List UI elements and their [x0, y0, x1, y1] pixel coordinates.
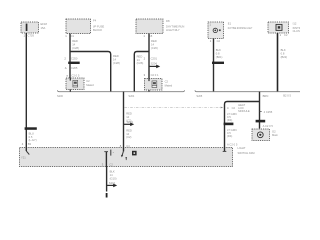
svg-text:RED: RED [126, 112, 132, 116]
svg-text:BLK: BLK [110, 170, 115, 174]
wire from fuse box down to headlamp switch [25, 33, 27, 148]
svg-text:C1: C1 [71, 34, 75, 38]
svg-text:C2: C2 [165, 80, 169, 84]
svg-text:Main: Main [272, 133, 278, 137]
svg-text:Mated: Mated [86, 83, 94, 87]
svg-text:14: 14 [110, 173, 113, 177]
svg-text:C2: C2 [109, 162, 113, 166]
svg-text:BLK: BLK [281, 48, 286, 52]
in-line connector tick [212, 62, 224, 64]
svg-text:0.8: 0.8 [216, 51, 220, 55]
interior: right terminal stub [224, 148, 226, 152]
interior: indicator [132, 151, 137, 156]
svg-text:RED: RED [126, 128, 132, 132]
fuse block box F1 (top-left, dashed) [21, 22, 39, 33]
underhood fuse block box (dashed) [66, 19, 91, 34]
svg-text:C2: C2 [86, 79, 90, 83]
svg-text:(D4): (D4) [227, 118, 232, 122]
wire from cluster down to splice bus [277, 33, 279, 92]
svg-text:B2 0 5: B2 0 5 [283, 93, 291, 97]
svg-text:A: A [65, 66, 67, 70]
heater LCD module wire path [259, 92, 261, 129]
svg-text:I12: I12 [293, 21, 297, 25]
svg-text:DAYTIME RUN: DAYTIME RUN [166, 24, 184, 28]
svg-text:14: 14 [126, 132, 129, 136]
svg-text:14: 14 [151, 42, 154, 46]
wire from third box down [148, 34, 150, 79]
svg-text:RED: RED [137, 54, 143, 58]
wire from fuse block down [69, 34, 71, 79]
svg-text:BLOCK: BLOCK [93, 28, 102, 32]
svg-text:(L-GY): (L-GY) [29, 138, 37, 142]
svg-text:Y21: Y21 [21, 156, 26, 160]
in-line connector tick on wire [68, 62, 80, 64]
svg-text:C703: C703 [28, 34, 35, 38]
svg-text:C2: C2 [284, 33, 288, 37]
svg-text:Mated: Mated [165, 83, 173, 87]
svg-text:RED: RED [113, 54, 119, 58]
svg-text:S210: S210 [109, 181, 116, 185]
svg-text:14: 14 [72, 43, 75, 47]
branch wire left [134, 52, 149, 92]
svg-text:(G10): (G10) [110, 176, 117, 180]
svg-text:B3: B3 [28, 142, 32, 146]
svg-text:MODULE: MODULE [238, 109, 250, 113]
svg-text:LIGHT: LIGHT [238, 146, 246, 150]
indicator symbol inside [276, 24, 282, 30]
ignition fuse box (dashed, third at top) [136, 19, 163, 34]
svg-text:RED: RED [72, 39, 78, 43]
svg-text:I/P FUSE: I/P FUSE [93, 24, 104, 28]
svg-text:BLU: BLU [29, 131, 34, 135]
svg-text:DAYTIME RUNNING LIGHT: DAYTIME RUNNING LIGHT [228, 26, 253, 30]
ground G201 box (dashed) [252, 129, 270, 141]
in-line connector tick [224, 123, 234, 126]
svg-text:4 C255: 4 C255 [264, 110, 273, 114]
branch to headlamp switch [225, 102, 260, 148]
svg-text:15A: 15A [41, 26, 46, 30]
splice pack box SP205 (dashed) [66, 78, 84, 90]
off-page arrow [124, 123, 131, 125]
svg-text:(B22): (B22) [281, 55, 288, 59]
branch wire right to splice [70, 52, 111, 92]
svg-text:C2: C2 [217, 39, 221, 43]
in-line connector tick on ground wire [256, 120, 266, 123]
svg-text:C2 0 5: C2 0 5 [71, 73, 79, 77]
svg-text:14: 14 [113, 57, 116, 61]
splice pack symbol [152, 81, 157, 88]
DRL relay box (top, 4th, dashed) [208, 22, 224, 39]
in-line connector C100 on left wire [25, 127, 37, 130]
output wire below switch [106, 167, 108, 192]
svg-text:C205: C205 [71, 66, 78, 70]
wire from bus down to headlamp switch (center) [123, 92, 125, 148]
splice bus S206 (left) [58, 90, 185, 91]
svg-text:EF18: EF18 [41, 22, 48, 26]
svg-text:(C26): (C26) [151, 46, 158, 50]
ground symbol [257, 132, 263, 138]
svg-text:C201: C201 [151, 56, 158, 60]
interior: fixed contact [104, 150, 108, 153]
svg-text:(B21): (B21) [216, 55, 223, 59]
svg-text:C2 0 1: C2 0 1 [151, 73, 159, 77]
stub from splice pack SP205 to bus [69, 90, 71, 92]
svg-text:(D4): (D4) [227, 134, 232, 138]
splice pack symbol [73, 80, 78, 87]
svg-text:LIGHT RLY: LIGHT RLY [166, 28, 180, 32]
interior: left terminal [25, 148, 27, 152]
fuse F1 symbol [26, 24, 28, 31]
off-page arrow bottom [107, 184, 114, 186]
svg-text:BLK: BLK [216, 48, 221, 52]
svg-text:(C28): (C28) [113, 61, 120, 65]
svg-text:(C28): (C28) [72, 46, 79, 50]
svg-text:CLUSTER: CLUSTER [293, 29, 300, 33]
svg-text:0.8: 0.8 [281, 51, 285, 55]
splice pack box SP201 (dashed) [145, 79, 163, 91]
svg-text:SWITCH ASM: SWITCH ASM [238, 151, 256, 155]
svg-text:(C26): (C26) [137, 61, 144, 65]
svg-text:E1: E1 [228, 22, 232, 26]
stub from splice pack SP201 to bus [148, 90, 150, 92]
dash-dot link line to heater module [125, 107, 221, 109]
lamp symbol inside [213, 28, 217, 32]
svg-text:S206: S206 [57, 94, 63, 98]
splice bus S205 (right) [195, 90, 300, 91]
svg-text:D8: D8 [166, 19, 170, 23]
svg-text:14: 14 [137, 58, 140, 62]
svg-text:C250: C250 [71, 57, 78, 61]
svg-text:(C2): (C2) [126, 135, 131, 139]
svg-text:14: 14 [126, 115, 129, 119]
svg-text:S205: S205 [196, 94, 202, 98]
svg-text:BRN: BRN [263, 94, 269, 98]
svg-text:A C2 0 5: A C2 0 5 [263, 124, 274, 128]
wire end segment [106, 193, 108, 198]
interior: switch wiper [123, 148, 125, 152]
svg-text:RED: RED [151, 39, 157, 43]
instrument cluster box (top-right, dashed) [268, 22, 289, 33]
interior: output wire [105, 152, 107, 167]
svg-text:C2: C2 [232, 106, 236, 110]
svg-text:G2: G2 [272, 129, 276, 133]
svg-text:S204: S204 [127, 120, 134, 124]
svg-text:0.5: 0.5 [29, 135, 33, 139]
svg-text:S204: S204 [128, 94, 134, 98]
svg-text:F4: F4 [93, 19, 97, 23]
svg-text:A C2 0 5: A C2 0 5 [227, 142, 238, 146]
headlamp switch box (big dashed) [20, 148, 233, 167]
wire from DRL box down to splice bus [213, 39, 215, 92]
